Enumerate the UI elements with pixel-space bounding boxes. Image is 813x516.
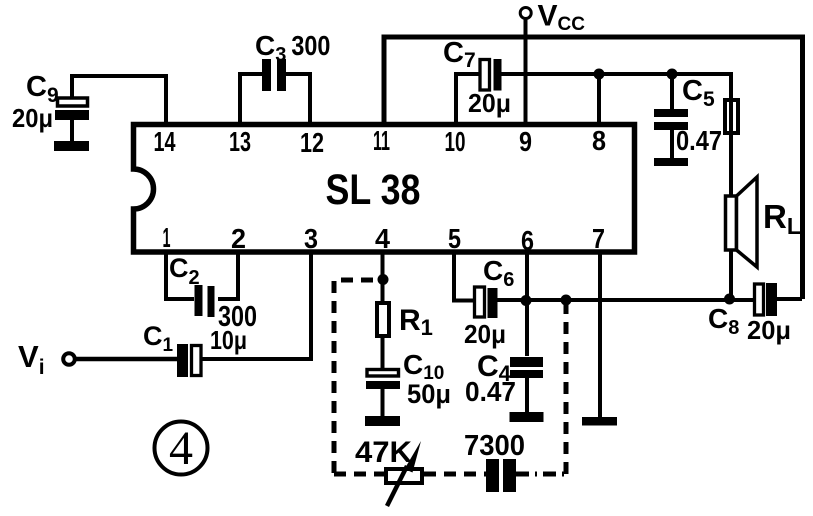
wire pin7 to ground (598, 252, 602, 418)
svg-text:7: 7 (592, 223, 605, 254)
wire pin6 to C4 (525, 252, 529, 356)
capacitor C6 (475, 287, 498, 318)
svg-text:9: 9 (519, 126, 532, 157)
node junction pin6 (521, 295, 532, 306)
wire C1 to pin3 (202, 252, 311, 359)
svg-text:3: 3 (304, 223, 318, 254)
ground (C5) (654, 158, 688, 166)
wire pin14 to C9 (72, 76, 166, 124)
node junction C5 rail (667, 69, 678, 80)
node junction pin8 rail (594, 69, 605, 80)
potentiometer 47K (386, 441, 422, 506)
wire dashed bottom left to pot (334, 472, 384, 477)
svg-text:0.47: 0.47 (465, 376, 516, 407)
wire pin1 to C2 (166, 252, 194, 299)
svg-text:20μ: 20μ (464, 319, 506, 349)
wire speaker to C8 node (729, 250, 733, 299)
speaker RL cone (737, 177, 758, 267)
svg-text:50μ: 50μ (407, 379, 451, 409)
wire pin11 top rail to right side (384, 37, 803, 299)
wire C6 to C8 (498, 298, 754, 302)
capacitor C3 (262, 59, 286, 91)
node junction dashed right (561, 295, 572, 306)
ground (pin7) (582, 417, 617, 426)
speaker RL driver (726, 196, 737, 250)
svg-text:0.47: 0.47 (676, 125, 722, 156)
wire pin8 up (597, 74, 601, 124)
svg-text:13: 13 (229, 126, 251, 157)
capacitor C5 (654, 109, 688, 158)
wire pin12 up (286, 74, 310, 124)
capacitor 7300 (486, 459, 516, 492)
svg-text:6: 6 (521, 225, 534, 256)
capacitor C8 (755, 283, 778, 316)
capacitor C4 (510, 357, 543, 413)
svg-text:4: 4 (375, 223, 390, 254)
wire pin5 to C6 (454, 252, 475, 301)
node junction pin4 dashed (378, 274, 389, 285)
ground (C9) (54, 141, 89, 151)
wire Vi to C1 (75, 357, 178, 362)
wire C5 stub (670, 74, 674, 109)
figure number 4 (155, 422, 208, 476)
capacitor C1 (177, 344, 201, 377)
wire pin13 up (240, 74, 263, 124)
wire C7 to right column (501, 74, 731, 196)
node Vcc terminal (520, 8, 531, 19)
resistor R1 (377, 303, 389, 336)
op-amp U1 IC body SL 38 (134, 125, 635, 253)
wire pin10 to C7 (456, 74, 480, 124)
wire dash-dot C7300 to right (516, 472, 566, 477)
svg-text:12: 12 (300, 127, 324, 158)
svg-text:5: 5 (448, 223, 461, 254)
svg-text:1: 1 (163, 222, 171, 253)
wire dashed box right (564, 300, 569, 474)
svg-text:11: 11 (373, 125, 390, 156)
wire R1 to C10 (381, 336, 385, 369)
capacitor C2 (195, 285, 215, 317)
ground (C4) (510, 412, 544, 422)
svg-text:47K: 47K (355, 436, 412, 469)
wire Vcc to pin 9 (524, 19, 528, 124)
wire C8 to right rail (777, 297, 802, 301)
ground (C10) (365, 416, 400, 426)
wire pin4 down (381, 252, 385, 303)
svg-text:7300: 7300 (464, 430, 525, 462)
svg-text:10: 10 (445, 126, 466, 157)
svg-text:4: 4 (169, 422, 193, 475)
node Vi terminal (63, 353, 75, 365)
node junction speaker C8 (724, 294, 735, 305)
svg-text:20μ: 20μ (747, 315, 791, 345)
svg-text:SL 38: SL 38 (326, 166, 421, 214)
wire pin2 to C2 (218, 252, 238, 299)
svg-text:10μ: 10μ (210, 325, 247, 355)
svg-text:8: 8 (592, 125, 606, 156)
svg-text:20μ: 20μ (468, 88, 511, 118)
capacitor C9 (55, 98, 89, 141)
svg-text:C3300: C3300 (255, 30, 330, 66)
wire dashed box left (334, 280, 376, 473)
wire dashed pot to C7300 (424, 472, 486, 477)
fuse element right column (725, 100, 738, 133)
capacitor C7 (480, 59, 502, 91)
capacitor C10 (366, 370, 400, 418)
svg-text:20μ: 20μ (12, 103, 53, 133)
svg-text:14: 14 (154, 126, 176, 157)
svg-text:2: 2 (231, 223, 246, 254)
